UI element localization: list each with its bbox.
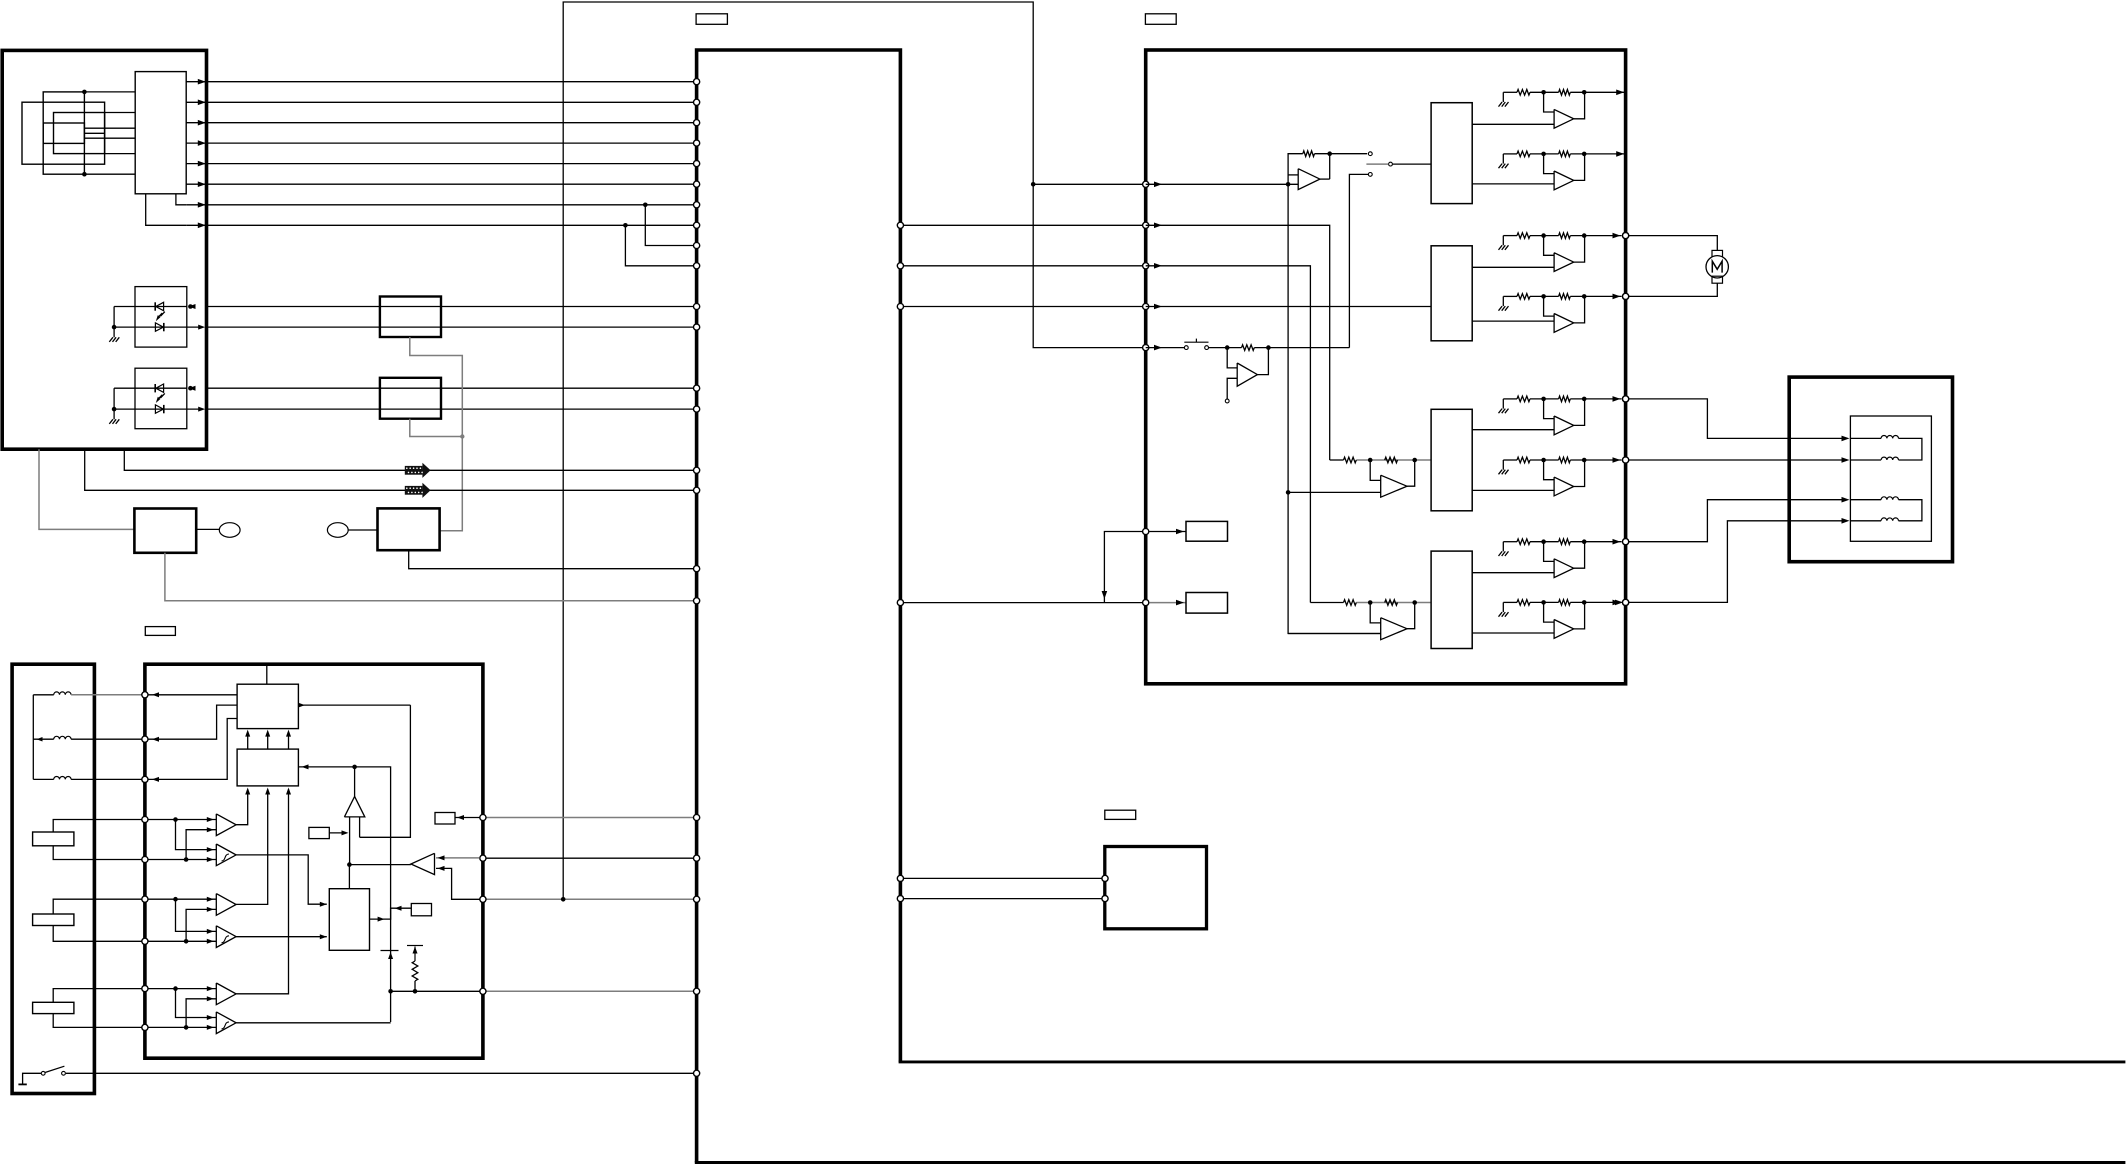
inverter output to stem dot xyxy=(349,864,411,866)
wire row 266 center->driver xyxy=(904,265,1142,267)
box4 thick xyxy=(378,508,440,550)
coil bracket 1-2 xyxy=(1899,438,1922,460)
wire row 306 center->driver xyxy=(904,306,1142,308)
pair3 hysteresis op xyxy=(176,989,217,1018)
coil inputs to rect1 xyxy=(148,694,237,696)
sensor rect s1 xyxy=(33,914,74,926)
label into stem xyxy=(309,827,329,838)
coil bracket 3-4 xyxy=(1899,500,1922,521)
capstan coils in sensor box xyxy=(32,695,34,780)
rect1 output loop to amp xyxy=(298,704,410,706)
servo rect2 xyxy=(237,749,298,786)
stepper wire 3 xyxy=(1623,539,1629,545)
output network row 235.6 xyxy=(1502,236,1504,246)
hyst2 output to FF input2 xyxy=(236,936,327,938)
flex cable arrow 2 xyxy=(405,486,423,495)
ellipse connector left xyxy=(219,523,240,538)
driver small box row 531 xyxy=(1104,532,1142,603)
gray wire connector bottom to box3 xyxy=(39,449,134,529)
switch wire to center row 1073 xyxy=(66,1072,694,1074)
wire dot->rect2 (arrow) xyxy=(298,766,354,768)
wire row 184 to driver xyxy=(1033,183,1142,185)
wire connector bottom to flex arrow row1 xyxy=(124,449,693,470)
wires center to mid-bottom unit xyxy=(904,877,1102,879)
wires photo2 to center block xyxy=(207,387,694,389)
block B xyxy=(1431,246,1472,341)
amp apex wire up / dot xyxy=(354,767,356,797)
output network row 398.9 xyxy=(1502,399,1504,409)
label box CN3 xyxy=(145,627,175,636)
stepper wire 1 xyxy=(1623,396,1629,402)
output network row 541.7 xyxy=(1502,542,1504,552)
wire top loop xyxy=(563,2,1145,899)
FF block xyxy=(329,889,369,951)
IC bottom stubs xyxy=(176,194,186,205)
pair2 hysteresis op xyxy=(176,899,217,931)
stepper wire 2 xyxy=(1623,457,1629,463)
wire driver to motor top xyxy=(1623,233,1629,239)
gray wire servo->center row 899 with loop join xyxy=(486,898,693,900)
photo-interrupter 1 xyxy=(135,287,187,348)
pin circle row 347 xyxy=(1143,345,1149,351)
label box CN2 xyxy=(1145,14,1176,24)
inverter input2 loop xyxy=(436,868,480,899)
wire ellipse-box4 xyxy=(348,529,377,531)
power arrow above x390 xyxy=(381,950,399,952)
head drum nested rect C xyxy=(54,113,105,154)
gray wire box3 bottom to center xyxy=(165,553,694,601)
wires photo1 to center block xyxy=(207,306,694,308)
resistor to row991 xyxy=(413,947,418,954)
coil L4 xyxy=(1881,518,1898,521)
coil L3 xyxy=(1881,497,1898,500)
wire thick bus B xyxy=(695,1161,2126,1164)
output network row 460.0 xyxy=(1502,460,1504,470)
motor M1 xyxy=(1712,250,1723,257)
wire row306 to block B xyxy=(1146,306,1431,308)
wire dot->x390 down xyxy=(355,767,391,1022)
mid resistor network row 602.5 xyxy=(1310,602,1343,604)
rect4 label + wire xyxy=(435,813,455,825)
gray drop from box1 xyxy=(410,337,463,531)
block: mid-bottom unit xyxy=(1105,847,1207,929)
switch S1 contacts xyxy=(1368,152,1372,156)
op-amp U2 row 347 xyxy=(1227,348,1237,368)
bus jog wire8->circle10 xyxy=(625,225,693,265)
driver small box row 602 gray xyxy=(904,602,1142,604)
head element rect r0 xyxy=(33,832,74,846)
FF top wire to inverter junction xyxy=(348,865,350,889)
bus wires with pin circles xyxy=(186,81,693,83)
coil L2 xyxy=(1881,457,1898,460)
output network row 602.4 xyxy=(1502,602,1504,612)
coil L1 xyxy=(1881,435,1898,438)
wire connector bottom to flex arrow row2 xyxy=(85,449,694,490)
mid resistor network row 460.0 xyxy=(1330,459,1344,461)
label box CN1 xyxy=(696,14,727,24)
IC inside connector box xyxy=(135,72,186,194)
power amp triangle (up) xyxy=(344,797,364,817)
cassette switch SW1 xyxy=(23,1073,42,1084)
block: system control IC (center tall block) xyxy=(697,50,901,1163)
coil wires to servo xyxy=(71,694,141,696)
pair1 plain op xyxy=(148,819,216,821)
head drum nested rect B xyxy=(22,102,105,164)
wire S1 bottom contact to switch row xyxy=(1349,174,1368,347)
FF label box xyxy=(411,904,431,916)
junction on loop at y=184 xyxy=(1031,182,1036,187)
op-amp U1 with feedback (driver top-left) xyxy=(1146,183,1299,185)
switch S2 row 347 xyxy=(1146,347,1185,349)
gray drop from box2 xyxy=(410,419,463,437)
output network row 153.9 xyxy=(1502,154,1504,164)
ellipse connector right xyxy=(327,523,348,538)
wire servo->center row 858 xyxy=(486,857,693,859)
hyst3 output to x390 xyxy=(236,1022,391,1024)
arrows rect2->rect1 xyxy=(247,732,249,749)
box3 thick xyxy=(134,509,196,553)
head drum nested rect D xyxy=(43,123,84,143)
photo-interrupter 2 xyxy=(135,368,187,429)
wire thick bus A xyxy=(899,1060,2126,1063)
stepper inner rect xyxy=(1850,416,1931,541)
pair1 hysteresis op xyxy=(176,820,217,850)
head drum nested rect A xyxy=(43,92,84,174)
inverter triangle (left) xyxy=(411,853,435,874)
head wires to IC xyxy=(84,91,135,93)
stepper wire 4 xyxy=(1623,599,1629,605)
box thick pass-through 1 xyxy=(380,297,441,338)
gray wire servo->center row 817 xyxy=(486,817,693,819)
wire box4 bottom to center xyxy=(409,550,694,569)
inverter input1 gray xyxy=(436,857,480,859)
block D xyxy=(1431,551,1472,648)
wire row 225 center->driver xyxy=(904,224,1142,226)
block C xyxy=(1431,409,1472,511)
wire row225 down x1329 xyxy=(1146,225,1330,460)
FF output loop xyxy=(370,908,412,919)
pair2 plain op xyxy=(148,898,216,900)
gray wire servo->center row 991 xyxy=(486,990,693,992)
block A xyxy=(1431,103,1472,204)
amp stem xyxy=(349,817,351,865)
block: sensor unit (far bottom-left) xyxy=(12,664,94,1093)
block: cylinder/connector unit (top-left) xyxy=(2,50,206,449)
bus jog wire7->circle9 xyxy=(645,205,693,246)
block: servo board (bottom-left) xyxy=(145,664,483,1058)
hyst1 output to FF xyxy=(236,855,327,904)
pair3 plain op xyxy=(148,988,216,990)
output network row 92.3 xyxy=(1502,92,1504,102)
box thick pass-through 2 xyxy=(380,378,441,419)
wire row266 down x1310 xyxy=(1146,266,1311,603)
wire motor bottom to driver xyxy=(1629,283,1717,296)
servo rect1 xyxy=(237,684,298,728)
label box CN4 xyxy=(1105,810,1136,819)
bus vertical x1288 xyxy=(1288,184,1381,633)
dot row991 junction xyxy=(388,989,393,994)
block: loading motor (stepper) xyxy=(1789,377,1952,562)
output network row 296.4 xyxy=(1502,296,1504,306)
coil feed lines xyxy=(1850,437,1881,439)
wire box3-ellipse xyxy=(196,528,219,530)
rect1 top stub xyxy=(266,664,268,684)
block: motor driver IC (top-right) xyxy=(1146,50,1626,684)
flex cable arrow 1 xyxy=(405,466,423,475)
sensor rect s2 xyxy=(33,1002,74,1013)
